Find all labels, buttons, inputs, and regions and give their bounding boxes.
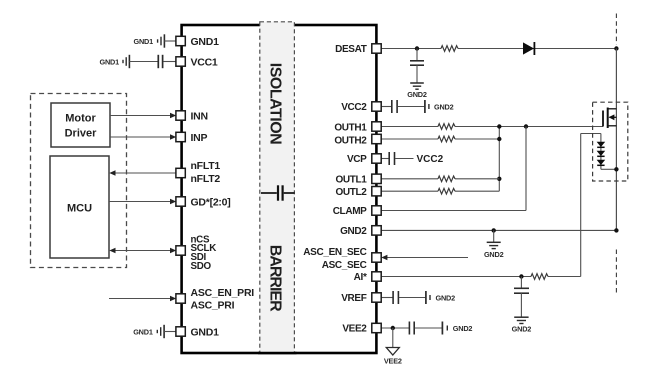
wire AI* net <box>381 134 601 277</box>
svg-text:VCC2: VCC2 <box>341 102 367 113</box>
resistor R_OUTL2 <box>438 188 455 194</box>
svg-text:VREF: VREF <box>341 293 367 304</box>
pin VEE2 <box>342 323 381 334</box>
svg-text:GND2: GND2 <box>434 102 454 111</box>
capacitor C_VCC1 with ground GND1 <box>100 55 176 68</box>
pin OUTH1 <box>334 122 381 134</box>
pin INN <box>176 110 208 122</box>
pin GND1 bottom <box>176 326 219 338</box>
svg-text:GND1: GND1 <box>133 327 153 336</box>
label BARRIER <box>266 245 283 312</box>
svg-text:VCC2: VCC2 <box>417 154 444 165</box>
svg-text:OUTL2: OUTL2 <box>335 187 367 198</box>
wire ASC_SEC (arrow into pin) <box>381 255 468 261</box>
isolation barrier strip <box>258 22 297 353</box>
wire drain rail dashed stub top <box>615 14 617 45</box>
svg-text:ASC_EN_PRI: ASC_EN_PRI <box>191 287 255 299</box>
pin SPI (nCS SCLK SDI SDO) <box>176 234 216 271</box>
svg-text:GD*[2:0]: GD*[2:0] <box>191 197 231 209</box>
svg-text:AI*: AI* <box>354 272 367 283</box>
controller dashed group box <box>31 94 127 268</box>
wire SPI bus (MCU to SPI pin, bidirectional) <box>109 248 176 254</box>
ground GND2 (AI cap) <box>512 317 532 333</box>
svg-text:ISOLATION: ISOLATION <box>266 63 283 144</box>
capacitor C_ISO (isolation capacitor) <box>261 185 295 200</box>
wire gate tie vertical <box>498 127 500 192</box>
svg-text:OUTH1: OUTH1 <box>334 122 367 133</box>
svg-text:VCC1: VCC1 <box>191 56 218 68</box>
resistor R_OUTL1 <box>438 176 455 182</box>
svg-text:CLAMP: CLAMP <box>333 206 367 217</box>
wire ASC_PRI (to ASC pin) <box>109 296 176 302</box>
node OUTL1 tie <box>497 177 501 181</box>
capacitor C_VCP and net VCC2 <box>381 152 443 165</box>
svg-text:ASC_EN_SEC: ASC_EN_SEC <box>303 247 366 258</box>
svg-text:Driver: Driver <box>65 128 98 140</box>
svg-text:GND1: GND1 <box>100 57 120 66</box>
pin INP <box>176 132 208 144</box>
label ISOLATION <box>266 63 283 144</box>
wire OUTH1 to gate <box>381 126 603 128</box>
wire nFLT (nFLT pin to MCU) <box>109 170 176 176</box>
pin nFLT1 nFLT2 <box>176 160 220 185</box>
svg-text:GND2: GND2 <box>340 226 367 237</box>
capacitor C_AI <box>514 277 529 317</box>
IC body U1 (gate driver) <box>182 25 377 353</box>
svg-text:OUTH2: OUTH2 <box>334 136 367 147</box>
wire DESAT net <box>381 48 616 50</box>
node diode return <box>614 167 618 171</box>
wire GND2 net <box>381 229 616 231</box>
transistor Q1 (power MOSFET) <box>603 108 616 129</box>
resistor R_OUTH1 <box>438 124 455 130</box>
svg-text:Motor: Motor <box>65 113 96 125</box>
ground GND2 (DESAT cap) <box>407 83 427 99</box>
svg-text:GND2: GND2 <box>512 325 532 334</box>
svg-text:ASC_SEC: ASC_SEC <box>322 260 367 271</box>
node GND2 ground tap <box>492 228 496 232</box>
svg-text:GND2: GND2 <box>436 293 456 302</box>
node AI cap tap <box>519 274 523 278</box>
wire INP (Motor Driver to INP pin) <box>110 134 176 140</box>
svg-text:OUTL1: OUTL1 <box>335 175 367 186</box>
wire OUTH2 <box>381 138 499 140</box>
diode D_DESAT <box>523 42 534 55</box>
svg-text:INN: INN <box>191 110 208 122</box>
pin GD*[2:0] <box>176 197 231 209</box>
node DESAT cap tap <box>415 46 419 50</box>
pin ASC_EN_SEC ASC_SEC <box>303 247 381 271</box>
pin OUTH2 <box>334 134 381 146</box>
capacitor C_VREF with ground GND2 <box>381 291 455 304</box>
svg-text:DESAT: DESAT <box>335 44 367 55</box>
svg-text:INP: INP <box>191 132 208 144</box>
resistor R_AI <box>531 274 548 280</box>
svg-text:GND2: GND2 <box>407 90 427 99</box>
wire drain-source rail <box>615 49 617 231</box>
wire rail dashed stub bottom <box>615 250 617 294</box>
capacitor C_DESAT <box>410 49 424 83</box>
svg-text:VEE2: VEE2 <box>342 324 367 335</box>
capacitor C_VCC2 with ground GND2 <box>381 100 453 113</box>
wire INN (Motor Driver to INN pin) <box>110 113 176 119</box>
wire OUTL2 <box>381 190 499 192</box>
ground GND1 top (at GND1 pin) <box>134 34 176 47</box>
transistor Q1 dashed box <box>593 102 628 181</box>
diode string D_TS (3 series diodes) <box>597 134 617 170</box>
svg-text:SDO: SDO <box>191 261 212 272</box>
wire OUTL1 <box>381 178 499 180</box>
pin OUTL1 <box>335 174 381 186</box>
node CLAMP tie <box>524 124 528 128</box>
pin VCC1 <box>176 56 218 68</box>
svg-text:ASC_PRI: ASC_PRI <box>191 299 235 311</box>
svg-text:GND1: GND1 <box>191 326 220 338</box>
pin GND2 <box>340 226 381 237</box>
capacitor C_VEE2 with ground GND2 <box>381 322 472 335</box>
svg-text:BARRIER: BARRIER <box>266 245 283 312</box>
resistor R_OUTH2 <box>438 136 455 142</box>
resistor R_DESAT <box>441 46 458 52</box>
svg-text:VEE2: VEE2 <box>384 356 402 365</box>
svg-text:GND2: GND2 <box>453 324 473 333</box>
svg-text:MCU: MCU <box>67 203 92 215</box>
pin DESAT <box>335 44 381 55</box>
pin VCP <box>347 154 381 165</box>
node DESAT to drain rail <box>614 46 618 50</box>
ground GND2 (mid) <box>484 230 504 258</box>
pin GND1 <box>176 36 219 48</box>
svg-text:nFLT2: nFLT2 <box>191 173 221 185</box>
wire GD (MCU to GD pin) <box>109 199 176 205</box>
pin AI* <box>354 272 382 283</box>
node OUTH1 tie <box>497 124 501 128</box>
ground GND1 bottom (at bottom GND1 pin) <box>133 325 176 338</box>
wire CLAMP riser <box>525 127 527 211</box>
pin OUTL2 <box>335 187 381 199</box>
pin VREF <box>341 293 381 304</box>
node rail GND2 junction <box>614 228 618 232</box>
svg-text:nFLT1: nFLT1 <box>191 160 221 172</box>
node VEE2 tap <box>391 326 395 330</box>
pin VCC2 <box>341 102 381 113</box>
wire CLAMP <box>381 210 526 212</box>
block Motor Driver <box>51 103 110 147</box>
net VEE2 (down arrow symbol) <box>384 328 402 365</box>
svg-text:GND1: GND1 <box>191 36 220 48</box>
block MCU <box>50 156 109 258</box>
svg-text:GND1: GND1 <box>134 37 154 46</box>
node OUTH2 tie <box>497 137 501 141</box>
svg-text:GND2: GND2 <box>484 250 504 259</box>
pin ASC_EN_PRI ASC_PRI <box>176 287 254 312</box>
svg-text:VCP: VCP <box>347 154 367 165</box>
pin CLAMP <box>333 206 382 217</box>
